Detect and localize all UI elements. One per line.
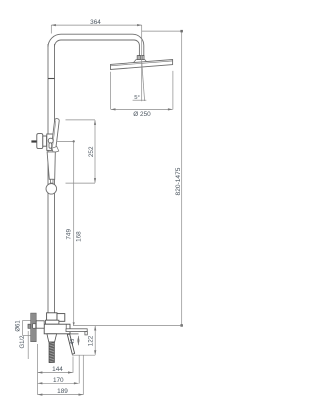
extension lines bottom	[37, 344, 83, 395]
riser pipe	[48, 44, 55, 313]
G1/2 leader line	[27, 331, 29, 359]
spout bar	[66, 329, 87, 332]
svg-text:820-1475: 820-1475	[175, 167, 182, 195]
dimension 122	[72, 326, 95, 355]
shower head connector nut	[137, 56, 144, 60]
mixer transition	[45, 320, 59, 324]
shower hose (hatched)	[49, 342, 54, 363]
dimension 820-1475 bottom link	[73, 325, 182, 327]
svg-text:45: 45	[70, 339, 76, 345]
handle nub	[50, 179, 53, 183]
dimension 364	[51, 25, 141, 33]
mixer elbow block	[47, 313, 57, 320]
mixer body	[44, 324, 70, 334]
svg-text:170: 170	[53, 377, 64, 384]
svg-text:Ø 250: Ø 250	[133, 111, 151, 118]
slider pivot	[48, 138, 53, 143]
dimension diameter 250	[111, 71, 173, 110]
mixer lever	[67, 334, 74, 354]
top bend and horizontal pipe	[48, 34, 144, 55]
svg-text:Ø61: Ø61	[15, 320, 21, 332]
slider slot	[49, 143, 52, 148]
svg-text:252: 252	[88, 146, 95, 157]
spout end lip	[85, 332, 87, 335]
holder pivot reference line	[57, 140, 75, 142]
hand shower wand	[51, 118, 59, 150]
slider clamp body	[47, 134, 55, 150]
flange window	[33, 324, 36, 328]
overhead shower head (tilted slab)	[111, 60, 173, 70]
hose ball joint	[46, 184, 57, 195]
dimension line 820-1475 top link	[142, 30, 182, 32]
slider knob disc	[37, 134, 43, 149]
dimension 144	[38, 372, 73, 374]
svg-text:5°: 5°	[134, 95, 140, 101]
dimension 820-1475	[175, 30, 183, 327]
5 degree tilted line	[142, 63, 145, 101]
wand tip flare	[52, 147, 59, 153]
shower head mount flare	[134, 60, 148, 63]
svg-text:749: 749	[66, 229, 73, 240]
dimension line 749 / 168	[73, 141, 75, 325]
hand shower handle	[47, 152, 55, 179]
flange connector	[36, 321, 44, 328]
wall stub G1/2	[28, 324, 31, 328]
dimension 189	[38, 394, 83, 396]
svg-text:G1/2: G1/2	[20, 335, 26, 349]
svg-text:122: 122	[87, 335, 94, 346]
hose connector nut	[47, 334, 57, 342]
slider knob stem	[31, 140, 36, 142]
svg-text:189: 189	[57, 388, 68, 395]
dimension 170	[38, 382, 79, 384]
svg-text:364: 364	[90, 19, 101, 26]
svg-text:144: 144	[52, 366, 63, 373]
slider knob hub	[43, 136, 47, 146]
dimension diameter 61	[23, 320, 31, 335]
pipe joint	[48, 78, 55, 80]
extension line to 5 degree vertex	[141, 25, 143, 101]
5 degree label	[133, 95, 147, 101]
arrow tick at bottom	[73, 322, 75, 325]
dimension 45	[77, 336, 79, 345]
svg-text:168: 168	[76, 231, 83, 242]
spout underside	[70, 333, 79, 335]
body right edge detail	[65, 324, 67, 329]
mixer diverter	[57, 314, 65, 322]
wall flange	[31, 313, 37, 342]
dimension 252	[66, 120, 96, 183]
